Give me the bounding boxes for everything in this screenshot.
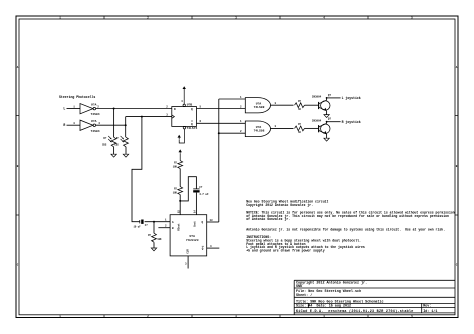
svg-text:74LS74: 74LS74: [187, 127, 198, 130]
svg-text:74S04: 74S04: [91, 113, 100, 116]
svg-text:2N3904: 2N3904: [312, 96, 322, 99]
svg-text:Q?: Q?: [328, 94, 332, 97]
svg-text:U?A: U?A: [91, 103, 97, 106]
svg-text:SNK: SNK: [296, 285, 303, 289]
svg-text:Antonio Gonzalez jr. is not re: Antonio Gonzalez jr. is not responsible …: [246, 227, 445, 231]
svg-text:10K: 10K: [157, 238, 162, 241]
svg-text:U?A: U?A: [91, 120, 97, 123]
svg-text:Steering Photocells: Steering Photocells: [59, 95, 95, 99]
svg-text:Copyright 2012 Antonio Gonzale: Copyright 2012 Antonio Gonzalez jr.: [246, 203, 313, 207]
svg-text:10K: 10K: [173, 191, 178, 194]
svg-text:R joystick: R joystick: [342, 120, 361, 124]
svg-text:2N3904: 2N3904: [312, 119, 322, 122]
svg-text:13: 13: [210, 219, 214, 222]
svg-text:74LS08: 74LS08: [254, 130, 265, 133]
svg-text:Sheet: /: Sheet: /: [296, 293, 312, 298]
svg-text:Size: A4: Size: A4: [296, 304, 312, 309]
svg-text:RCext: RCext: [177, 223, 180, 231]
svg-text:Cext: Cext: [194, 221, 197, 227]
svg-text:U?B: U?B: [187, 104, 193, 107]
svg-text:+5 and ground are drawn from p: +5 and ground are drawn from power suppl…: [246, 249, 325, 253]
svg-text:Date: 15 aug 2012: Date: 15 aug 2012: [317, 305, 352, 309]
svg-text:C?: C?: [199, 186, 203, 189]
svg-text:Id: 1/1: Id: 1/1: [423, 309, 437, 314]
svg-text:74LS123: 74LS123: [186, 239, 199, 242]
svg-text:10 uF: 10 uF: [134, 226, 142, 229]
svg-text:CLR: CLR: [186, 249, 189, 254]
svg-text:L joystick: L joystick: [342, 96, 361, 100]
svg-text:10K: 10K: [173, 165, 178, 168]
svg-text:Title: SNK Neo Geo Steering Wh: Title: SNK Neo Geo Steering Wheel Schema…: [296, 299, 384, 304]
svg-text:of Antonio Gonzalez jr.: of Antonio Gonzalez jr.: [246, 217, 290, 221]
svg-text:L: L: [63, 107, 65, 111]
svg-text:U?A: U?A: [256, 126, 262, 129]
svg-text:CDS: CDS: [102, 144, 107, 147]
svg-text:4.7 uF: 4.7 uF: [199, 193, 209, 196]
svg-text:CDS: CDS: [114, 144, 119, 147]
svg-text:74S04: 74S04: [91, 130, 100, 133]
svg-text:KiCad E.D.A. eeschema (2011-0: KiCad E.D.A. eeschema (2011-01-23 BZR 27…: [296, 309, 414, 314]
svg-text:Q?: Q?: [328, 117, 332, 120]
svg-text:Copyright 2012 Antonio Gonzale: Copyright 2012 Antonio Gonzalez jr.: [296, 281, 367, 286]
svg-text:R: R: [63, 123, 65, 127]
svg-text:U?A: U?A: [189, 235, 195, 238]
svg-text:74LS08: 74LS08: [254, 106, 265, 109]
svg-text:Rev:: Rev:: [423, 305, 431, 309]
svg-text:U?A: U?A: [256, 102, 262, 105]
